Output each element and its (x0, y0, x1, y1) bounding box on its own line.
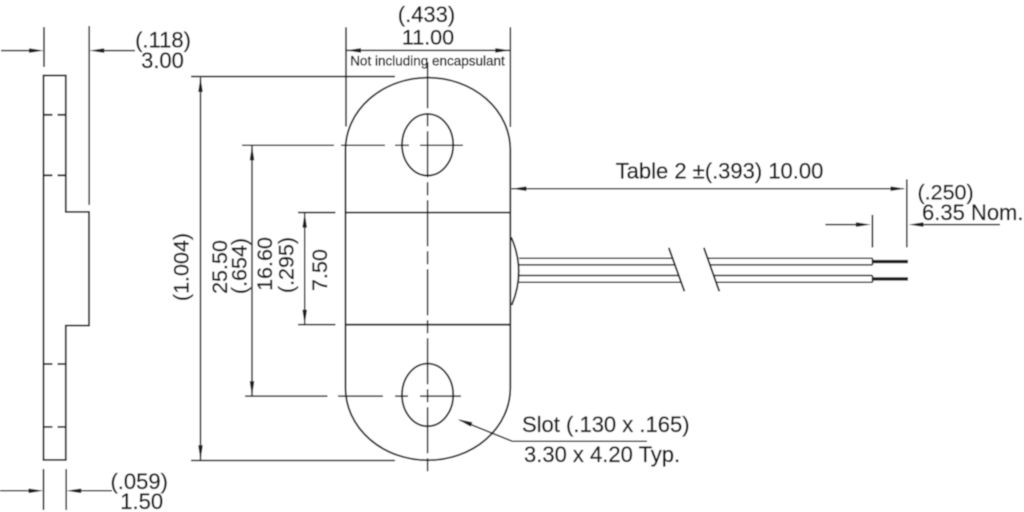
front view stadium body (346, 78, 511, 461)
dim .118 extension line right (88, 26, 90, 205)
dim 16.60 line (250, 145, 255, 396)
svg-text:16.60: 16.60 (253, 237, 277, 291)
dim 7.50 extension top (298, 212, 336, 214)
body section line upper (346, 212, 511, 214)
wire break mark 1 (669, 248, 685, 291)
encapsulant bulge (511, 237, 519, 305)
svg-text:(.433): (.433) (398, 2, 455, 27)
dim 25.50 extension top (191, 76, 395, 78)
svg-text:Not including encapsulant: Not including encapsulant (350, 54, 505, 69)
wire 1 insulation end cap (872, 258, 874, 265)
top slot (402, 114, 453, 176)
svg-text:1.50: 1.50 (120, 489, 163, 512)
svg-text:3.00: 3.00 (141, 48, 184, 73)
slot leader arrowhead (458, 419, 473, 427)
bottom slot horizontal centerline (245, 395, 461, 397)
svg-text:Table 2 ±(.393) 10.00: Table 2 ±(.393) 10.00 (616, 159, 824, 184)
dim .059 arrow right (66, 489, 112, 494)
dim 11.00 extension right (509, 27, 511, 127)
dim 6.35 arrow left (825, 222, 871, 227)
dim .059 extension left (43, 469, 45, 510)
bottom slot (402, 364, 453, 427)
svg-text:6.35 Nom.: 6.35 Nom. (922, 200, 1024, 225)
dim 11.00 line with outward arrows (346, 48, 510, 53)
dim 6.35 extension left (871, 215, 873, 248)
top slot horizontal centerline (242, 144, 463, 146)
svg-text:Slot (.130 x .165): Slot (.130 x .165) (522, 412, 690, 437)
dim .118 arrow left (1, 48, 44, 53)
dim .059 arrow left (0, 489, 44, 494)
svg-text:3.30 x 4.20 Typ.: 3.30 x 4.20 Typ. (524, 442, 680, 467)
dim .118 extension tick left (43, 27, 45, 67)
wire 2 lower line (519, 281, 682, 283)
svg-text:(.295): (.295) (275, 237, 299, 293)
wire 2 insulation end cap (872, 276, 874, 283)
body section line lower (346, 324, 511, 326)
dim 25.50 extension bottom (191, 460, 395, 462)
wire 1 bare conductor (873, 260, 908, 263)
dim 25.50 line (198, 77, 203, 460)
slot leader line (460, 420, 512, 441)
svg-text:(.654): (.654) (228, 238, 252, 294)
hidden line bottom slot upper (44, 363, 66, 365)
dim 7.50 extension bottom (298, 324, 336, 326)
dim .118 arrow right (89, 48, 135, 53)
svg-text:7.50: 7.50 (308, 249, 332, 291)
hidden line bottom slot lower (44, 426, 66, 428)
svg-text:11.00: 11.00 (402, 26, 454, 50)
dim 11.00 extension left (345, 27, 347, 126)
dim .059 extension right (65, 469, 67, 510)
hidden line top slot upper (44, 114, 66, 116)
wire break mark 2 (704, 248, 719, 291)
dim table2 extension right (906, 179, 908, 247)
wire 1 lower line (519, 264, 675, 266)
svg-text:(1.004): (1.004) (170, 233, 194, 301)
dim table2 line (512, 186, 906, 191)
vertical centerline (427, 62, 429, 472)
side view outline (44, 76, 90, 460)
dim 7.50 line (302, 213, 307, 325)
wire 1 upper line (519, 257, 673, 259)
wire 2 bare conductor (873, 277, 908, 280)
dim 6.35 arrow right (909, 222, 1001, 227)
hidden line top slot lower (44, 174, 66, 176)
wire 2 upper line (519, 275, 679, 277)
